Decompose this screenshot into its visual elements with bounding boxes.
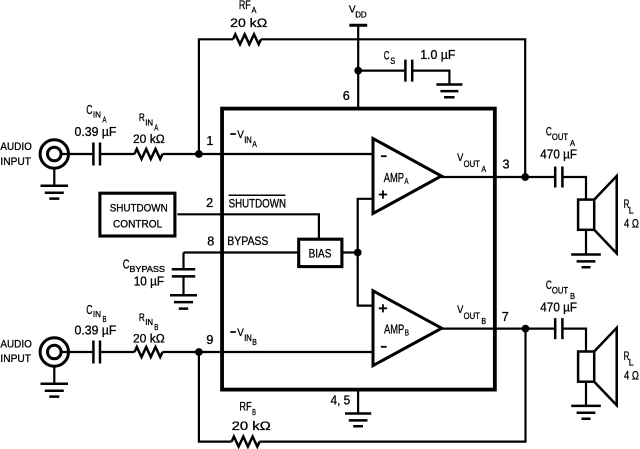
capacitor COUTB (555, 318, 562, 339)
VDD supply bar (349, 24, 367, 27)
svg-text:B: B (252, 338, 257, 347)
wire RFA to output node A (261, 39, 525, 177)
svg-text:SHUTDOWN: SHUTDOWN (229, 196, 286, 210)
wire VDD to CS (358, 69, 404, 71)
svg-text:3: 3 (503, 157, 510, 171)
ground (pins 4,5) (345, 414, 371, 427)
svg-text:0.39 µF: 0.39 µF (75, 323, 117, 338)
IC outline U1 (222, 109, 495, 390)
svg-text:6: 6 (343, 89, 350, 103)
wire RINB to pin9 and amp B inverting input (163, 351, 374, 353)
wire output B (442, 328, 555, 330)
svg-text:2: 2 (206, 196, 213, 210)
svg-text:AMP: AMP (384, 170, 404, 185)
wire CINA to RINA (101, 153, 135, 155)
svg-text:CONTROL: CONTROL (113, 219, 162, 231)
op-amp AMPB (373, 291, 442, 366)
pin label -VINB (230, 331, 236, 333)
svg-text:C: C (123, 256, 130, 271)
node VDD / CS junction (354, 67, 362, 75)
ground (CS) (436, 85, 462, 98)
svg-text:4 Ω: 4 Ω (624, 216, 639, 230)
resistor RINA (135, 149, 163, 159)
svg-text:9: 9 (206, 333, 213, 347)
svg-text:A: A (252, 140, 257, 149)
wire BIAS to noninverting inputs (342, 251, 358, 253)
wire pins 4,5 to ground (357, 389, 359, 413)
speaker RL (A) (578, 200, 594, 230)
svg-text:B: B (481, 317, 486, 326)
svg-text:OUT: OUT (552, 132, 569, 142)
svg-text:AUDIO: AUDIO (0, 338, 32, 350)
wire CINB to RINB (101, 351, 135, 353)
wire VDD stem / pin 6 (357, 25, 359, 108)
minus input A (381, 155, 387, 157)
svg-text:8: 8 (207, 235, 214, 249)
svg-text:BYPASS: BYPASS (227, 234, 268, 248)
minus input B (381, 346, 387, 348)
ground (jack B) (53, 366, 55, 383)
svg-text:IN: IN (145, 117, 153, 127)
svg-text:10 µF: 10 µF (134, 275, 165, 289)
capacitor CBYPASS (172, 269, 195, 276)
wire joining + inputs of both amps (358, 199, 374, 306)
wire CS to ground (412, 71, 449, 84)
RCA jack J1 (audio input A) (40, 140, 68, 168)
wire COUTB to speaker B (562, 329, 586, 352)
wire RINA to pin1 and amp A inverting input (163, 153, 374, 155)
ground (speaker A) (571, 255, 601, 268)
svg-text:B: B (405, 328, 409, 338)
svg-text:R: R (139, 112, 145, 124)
svg-text:IN: IN (145, 317, 153, 327)
svg-text:OUT: OUT (464, 159, 481, 169)
svg-text:4 Ω: 4 Ω (624, 368, 639, 382)
node output A (521, 173, 529, 181)
ground (speaker B) (571, 406, 601, 419)
wire pin8 bypass (184, 251, 299, 253)
wire RFB to output node B (260, 329, 526, 442)
svg-text:L: L (629, 205, 634, 215)
svg-text:470 µF: 470 µF (540, 148, 577, 162)
resistor RINB (135, 347, 163, 357)
svg-text:20 kΩ: 20 kΩ (232, 419, 271, 433)
svg-text:RF: RF (239, 0, 251, 12)
svg-text:IN: IN (244, 333, 252, 343)
plus input A (379, 190, 387, 198)
resistor RFB (232, 437, 260, 447)
svg-text:C: C (86, 102, 92, 117)
capacitor CINA (93, 143, 100, 166)
wire pin2 shutdown to BIAS (177, 214, 319, 239)
svg-text:INPUT: INPUT (0, 156, 31, 168)
capacitor COUTA (555, 167, 562, 188)
svg-text:0.39 µF: 0.39 µF (75, 124, 117, 139)
svg-text:470 µF: 470 µF (540, 301, 577, 315)
svg-text:AMP: AMP (384, 321, 404, 336)
svg-text:AUDIO: AUDIO (0, 141, 32, 153)
svg-text:B: B (252, 407, 256, 417)
svg-text:1.0 µF: 1.0 µF (420, 48, 456, 62)
svg-text:L: L (629, 357, 634, 367)
capacitor CINB (93, 341, 100, 364)
svg-text:OUT: OUT (552, 286, 569, 296)
svg-text:RF: RF (239, 401, 251, 413)
plus input B (379, 304, 387, 312)
svg-text:A: A (252, 5, 257, 15)
wire COUTA to speaker A (562, 177, 586, 200)
svg-text:OUT: OUT (464, 311, 481, 321)
svg-text:A: A (404, 176, 408, 186)
svg-text:20 kΩ: 20 kΩ (133, 331, 165, 345)
capacitor CS (405, 60, 412, 82)
svg-text:C: C (384, 48, 390, 62)
svg-text:C: C (86, 302, 92, 317)
resistor RFA (233, 34, 261, 44)
svg-text:BYPASS: BYPASS (129, 265, 165, 274)
wire CBYPASS to ground (182, 276, 184, 294)
wire output A (441, 176, 554, 178)
svg-text:S: S (390, 56, 395, 66)
node pin9 junction (195, 348, 203, 356)
svg-text:20 kΩ: 20 kΩ (133, 132, 165, 146)
wire jack B to CINB (61, 351, 92, 353)
svg-text:DD: DD (355, 11, 367, 20)
ground (CBYPASS) (170, 295, 197, 308)
wire RFB feedback down from node 9 (199, 352, 232, 442)
svg-text:20 kΩ: 20 kΩ (230, 16, 267, 30)
node output B (522, 325, 530, 333)
RCA jack J2 (audio input B) (40, 338, 68, 366)
wire speaker A to ground (585, 230, 587, 254)
node BIAS junction (354, 249, 362, 257)
wire jack A to CINA (61, 153, 92, 155)
svg-text:7: 7 (502, 310, 509, 324)
svg-text:IN: IN (93, 109, 101, 119)
svg-text:IN: IN (244, 135, 252, 145)
box shutdown control (100, 193, 175, 236)
svg-text:INPUT: INPUT (0, 353, 31, 365)
svg-text:SHUTDOWN: SHUTDOWN (110, 202, 168, 214)
svg-text:A: A (481, 165, 486, 174)
pin label -VINA (230, 133, 236, 135)
svg-text:IN: IN (93, 309, 101, 319)
speaker RL (B) (578, 352, 594, 382)
wire CBYPASS stem (182, 253, 184, 270)
svg-text:R: R (139, 312, 145, 324)
wire RFA feedback up from node 1 (199, 39, 233, 154)
box BIAS (299, 239, 342, 266)
ground (jack A) (53, 168, 55, 185)
svg-text:4, 5: 4, 5 (331, 394, 351, 408)
wire speaker B to ground (585, 382, 587, 406)
op-amp AMPA (373, 139, 441, 214)
svg-text:1: 1 (206, 134, 213, 148)
node pin1 junction (195, 150, 203, 158)
svg-text:A: A (570, 139, 576, 148)
svg-text:BIAS: BIAS (309, 247, 332, 261)
